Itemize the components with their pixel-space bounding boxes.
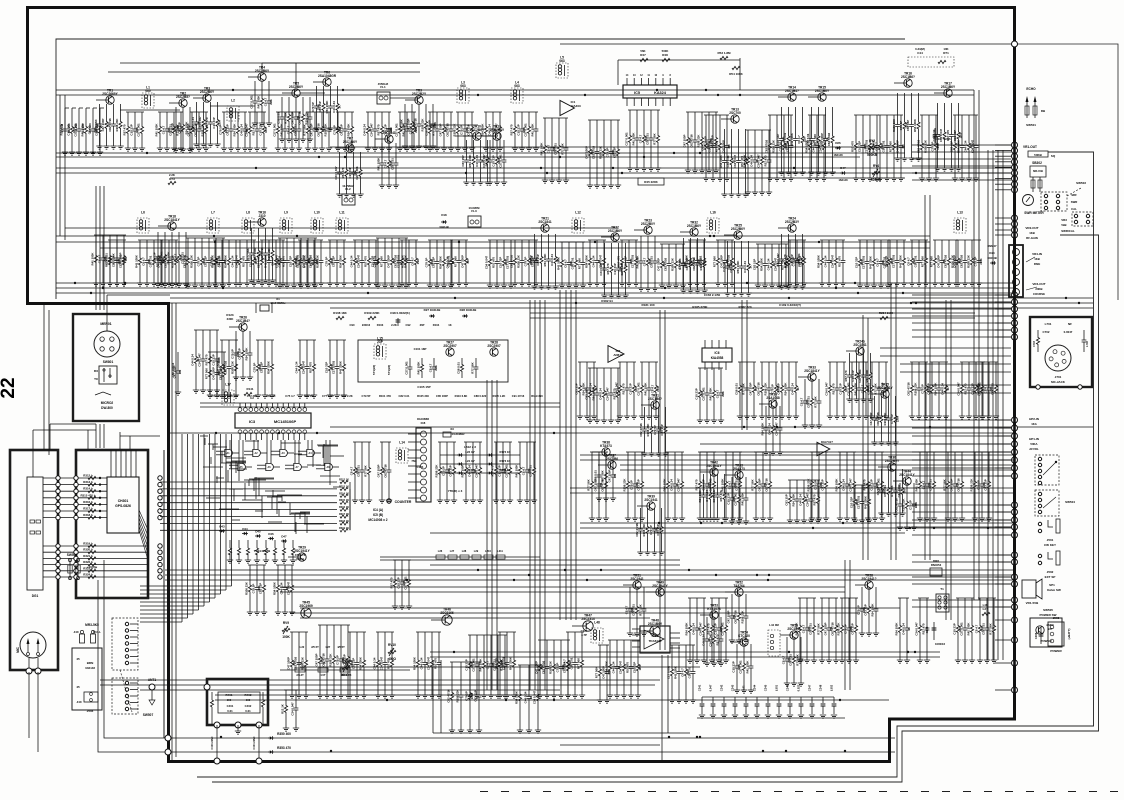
wires of TR37 stage (598, 464, 611, 466)
diode matrix right of IC8 (440, 454, 520, 456)
svg-text:C8 4.7: C8 4.7 (410, 257, 414, 266)
coil L14 cluster (396, 448, 408, 463)
svg-text:C27 0.001: C27 0.001 (876, 478, 880, 492)
wire rail y=523 (580, 522, 1014, 524)
svg-text:C83 15P: C83 15P (216, 256, 220, 267)
svg-text:SW501: SW501 (1026, 123, 1036, 127)
svg-text:C10 33P: C10 33P (348, 167, 352, 178)
svg-text:14.31MHz: 14.31MHz (451, 432, 465, 436)
band2 far right drops (933, 239, 958, 241)
resistor/capacitor drops of TR18 stage (156, 232, 161, 284)
svg-text:C402: C402 (245, 704, 252, 708)
svg-text:2SC1841Y: 2SC1841Y (164, 218, 180, 222)
left wires down to boxes (43, 305, 45, 450)
svg-text:C47 100P: C47 100P (823, 623, 827, 636)
svg-text:R77 56K: R77 56K (929, 255, 933, 267)
svg-text:C10 33P: C10 33P (632, 662, 636, 673)
transistor TR49 (656, 588, 664, 596)
wires of TR53 stage (700, 614, 713, 616)
svg-text:R77 56K: R77 56K (379, 255, 383, 267)
svg-text:C83 15P: C83 15P (536, 254, 540, 265)
svg-text:C8 4.7: C8 4.7 (428, 363, 432, 372)
bus wire x=925 (924, 195, 926, 560)
wires of TR9 stage (405, 99, 418, 101)
svg-text:C47 100P: C47 100P (593, 479, 597, 492)
svg-text:C34 0.047: C34 0.047 (244, 123, 248, 137)
svg-text:C248: C248 (819, 684, 823, 691)
svg-text:R54 100K: R54 100K (480, 123, 484, 137)
svg-text:C83 15P: C83 15P (466, 124, 470, 135)
svg-text:C79 5P: C79 5P (196, 257, 200, 267)
coil L7 (207, 218, 219, 233)
band5 left fill x=292 (290, 631, 308, 633)
svg-text:R106 23K: R106 23K (516, 254, 520, 268)
svg-text:R54 100K: R54 100K (791, 493, 795, 507)
op-amp IC1 BA403 (560, 100, 574, 115)
coil L11 (336, 218, 348, 233)
svg-text:C79 5P: C79 5P (332, 125, 336, 135)
inner nested border line 2 (right/bottom double frame) (212, 235, 1099, 782)
band5 left fill x=350 (348, 631, 366, 633)
svg-text:R106 23K: R106 23K (598, 145, 602, 159)
svg-text:L10: L10 (314, 211, 320, 215)
filter box bottom nodes (214, 722, 220, 728)
resistor network row (229, 540, 231, 548)
svg-text:C8 4.7: C8 4.7 (680, 668, 684, 677)
transistor TR29 (298, 553, 306, 561)
svg-text:D28 1N414B: D28 1N414B (460, 308, 477, 312)
svg-text:C10 33P: C10 33P (952, 623, 956, 634)
svg-text:C27 0.001: C27 0.001 (720, 622, 724, 636)
svg-text:L28: L28 (462, 549, 467, 553)
drops C84 area (194, 329, 219, 331)
svg-text:R41 100K: R41 100K (376, 157, 380, 171)
wires of TR50 stage (780, 634, 793, 636)
svg-text:2SC1B6Y: 2SC1B6Y (648, 622, 663, 626)
svg-text:220K: 220K (895, 416, 899, 422)
svg-text:R41 100K: R41 100K (868, 255, 872, 269)
svg-text:C10 33P: C10 33P (129, 124, 133, 135)
resistor/capacitor drops of TR44 stage (898, 483, 903, 527)
inner thin frame top-left (56, 39, 905, 299)
svg-text:C27 0.001: C27 0.001 (891, 254, 895, 268)
svg-text:C27 0.001: C27 0.001 (666, 665, 670, 679)
svg-text:C88 0.022: C88 0.022 (474, 394, 487, 398)
svg-text:C83 15P: C83 15P (448, 465, 452, 476)
svg-text:C10 33P: C10 33P (516, 124, 520, 135)
wires of TR35 stage (871, 393, 884, 395)
wire rail y=63 (120, 62, 420, 64)
svg-text:R41 100K: R41 100K (684, 254, 688, 268)
svg-text:R106 23K: R106 23K (548, 660, 552, 674)
svg-text:C27 0.001: C27 0.001 (504, 464, 508, 478)
power transistor TR47 (583, 621, 593, 631)
svg-text:TDA6130: TDA6130 (649, 639, 662, 643)
svg-text:C47 100P: C47 100P (290, 112, 294, 125)
wires of TR16 stage (894, 82, 907, 84)
power transistor 2SD363 box (1030, 618, 1062, 647)
svg-text:C401: C401 (227, 704, 234, 708)
svg-text:C8 4.7: C8 4.7 (270, 257, 274, 266)
svg-text:C27 0.001: C27 0.001 (272, 123, 276, 137)
svg-text:C8 4.7: C8 4.7 (286, 125, 290, 134)
svg-text:C44 0.34: C44 0.34 (766, 258, 770, 270)
svg-text:R57 470: R57 470 (616, 256, 620, 267)
transistor TR2 (179, 99, 187, 107)
svg-text:1000/16: 1000/16 (935, 642, 946, 646)
svg-text:5Y1(23): 5Y1(23) (372, 365, 376, 375)
svg-text:R95 560: R95 560 (304, 394, 315, 398)
svg-text:C8 4.7: C8 4.7 (263, 97, 267, 106)
svg-text:C56 0.01: C56 0.01 (148, 255, 152, 267)
coil L1 (142, 93, 154, 108)
wire rail y=680 (100, 679, 660, 681)
svg-text:R77 56K: R77 56K (652, 132, 656, 144)
svg-text:IC5: IC5 (634, 91, 640, 95)
svg-text:AFVOL: AFVOL (1029, 447, 1039, 451)
svg-text:R57 470: R57 470 (490, 465, 494, 476)
svg-text:C47 100P: C47 100P (386, 255, 390, 268)
svg-text:R106 23K: R106 23K (969, 478, 973, 492)
svg-text:2SC2B3Y: 2SC2B3Y (785, 220, 800, 224)
svg-text:R106 23K: R106 23K (763, 382, 767, 396)
band1 fill drops x=160 (158, 111, 183, 113)
band4 fill drops x=668 (666, 451, 684, 453)
band3 fill drops x=762 (760, 361, 778, 363)
svg-text:0.0047: 0.0047 (1064, 330, 1073, 334)
svg-text:45: 45 (76, 685, 80, 689)
wires of TR14 stage (778, 96, 791, 98)
svg-text:IC6: IC6 (715, 351, 720, 355)
svg-text:1N414B: 1N414B (439, 225, 449, 229)
wires from bus into schematic (995, 144, 1011, 146)
svg-text:C47 100P: C47 100P (897, 485, 901, 498)
transistor TR63 (735, 471, 743, 479)
svg-text:C47 100P: C47 100P (869, 413, 873, 426)
svg-text:R106 23K: R106 23K (806, 478, 810, 492)
logic wiring short segments (200, 435, 208, 437)
coil L8 (242, 218, 254, 233)
svg-text:C27 0.001: C27 0.001 (701, 387, 705, 401)
svg-text:C79 5P: C79 5P (523, 257, 527, 267)
transistor TR6 (323, 78, 331, 86)
band1 fill drops x=458 (456, 111, 474, 113)
svg-text:2SC2669Y: 2SC2669Y (102, 92, 118, 96)
svg-text:VR2-OUT: VR2-OUT (1025, 226, 1038, 230)
svg-text:R106 23K: R106 23K (771, 139, 775, 153)
bus wire x=492 (491, 380, 493, 690)
band1b fill drops x=856 (854, 114, 879, 116)
transistor TR24 (788, 224, 796, 232)
band2 fill drops x=890 (888, 239, 906, 241)
gate interconnect wires (225, 440, 227, 449)
svg-text:C83 15P: C83 15P (225, 124, 229, 135)
bus wire x=566 (565, 290, 567, 620)
transistor TR23 (644, 226, 652, 234)
svg-text:R106 23K: R106 23K (646, 423, 650, 437)
svg-text:MC145106P: MC145106P (274, 419, 297, 424)
DIN jack J701 (1045, 345, 1071, 371)
svg-text:C79 5P: C79 5P (464, 691, 468, 701)
svg-text:R106 23K: R106 23K (966, 254, 970, 268)
band5 left fill x=500 (498, 631, 516, 633)
bus wire x=993 (992, 150, 994, 660)
wires of TR58 stage (855, 584, 868, 586)
svg-text:2SC2B6Y: 2SC2B6Y (289, 85, 304, 89)
inner nested border line 1 (right/bottom double frame) (197, 152, 1094, 777)
svg-text:C44 0.34: C44 0.34 (362, 124, 366, 136)
svg-text:20KB: 20KB (1035, 287, 1042, 291)
svg-text:R182 94: R182 94 (601, 299, 613, 303)
transistor TR38 (602, 448, 610, 456)
bus wire x=576 (575, 290, 577, 620)
svg-text:C10 33P: C10 33P (628, 383, 632, 394)
svg-text:C44 0.34: C44 0.34 (588, 383, 592, 395)
resistor/capacitor drops of TR9 stage (403, 104, 408, 146)
svg-text:C34 0.047: C34 0.047 (773, 257, 777, 271)
svg-text:C91 47/16: C91 47/16 (512, 394, 525, 398)
svg-text:C34 0.047: C34 0.047 (914, 622, 918, 636)
transistor TR39 (647, 502, 655, 510)
svg-text:C47 100P: C47 100P (301, 255, 305, 268)
svg-text:C44 0.34: C44 0.34 (743, 261, 747, 273)
svg-text:R54 100K: R54 100K (460, 464, 464, 478)
svg-text:C10 33P: C10 33P (111, 256, 115, 267)
right node stub rails (912, 144, 1011, 146)
svg-text:L501: L501 (775, 684, 779, 691)
svg-text:C62 47/16: C62 47/16 (959, 254, 963, 268)
wires of TR2 stage (169, 102, 182, 104)
bus wire x=974 (973, 90, 975, 600)
svg-text:2.2K: 2.2K (656, 386, 660, 392)
wire rail y=652 (430, 651, 940, 653)
svg-text:C62 47/16: C62 47/16 (956, 478, 960, 492)
svg-text:R106 23K: R106 23K (642, 523, 646, 537)
svg-text:C44 0.34: C44 0.34 (523, 691, 527, 703)
band1b fill drops x=770 (768, 114, 793, 116)
svg-text:C83 15P: C83 15P (574, 383, 578, 394)
svg-text:C27 0.001: C27 0.001 (733, 492, 737, 506)
svg-text:L12: L12 (575, 211, 581, 215)
svg-text:R41 100K: R41 100K (556, 256, 560, 270)
svg-text:1N4148: 1N4148 (833, 153, 843, 157)
svg-text:R106 23K: R106 23K (434, 464, 438, 478)
band5 left fill x=568 (566, 631, 584, 633)
wire rail y=283 (56, 282, 1014, 284)
stage link wires band1 (120, 109, 180, 111)
wires of TR5 stage (282, 92, 295, 94)
svg-text:R313 b: R313 b (83, 480, 93, 484)
svg-text:063: 063 (514, 84, 520, 88)
svg-text:L16: L16 (710, 211, 716, 215)
SW504 dashed switch lower (1035, 490, 1059, 516)
svg-text:R57 470: R57 470 (946, 130, 950, 141)
wire rail y=738 (110, 737, 895, 739)
transformer T1 (936, 594, 949, 612)
after TR48 drops (670, 644, 695, 646)
svg-text:C83 15P: C83 15P (473, 690, 477, 701)
svg-text:C62 47/16: C62 47/16 (639, 423, 643, 437)
svg-text:C158 2.1/50: C158 2.1/50 (704, 293, 721, 297)
svg-text:R106 23K: R106 23K (244, 581, 248, 595)
svg-text:C34 0.047: C34 0.047 (484, 255, 488, 269)
svg-text:R96 47: R96 47 (987, 244, 996, 248)
transistor TR24b (856, 347, 864, 355)
drops under TR21 (560, 241, 585, 243)
svg-text:D45: D45 (255, 530, 261, 534)
bus wire x=535 (534, 300, 536, 690)
coil L5 (556, 63, 568, 78)
svg-text:1N4148: 1N4148 (838, 178, 848, 182)
svg-text:R41 100K: R41 100K (740, 492, 744, 506)
NAND gates row 1 (225, 449, 233, 456)
svg-text:C10 33P: C10 33P (383, 124, 387, 135)
svg-text:0.022: 0.022 (797, 684, 801, 691)
svg-text:C62 47/16: C62 47/16 (830, 622, 834, 636)
svg-text:36P: 36P (420, 323, 425, 327)
band5 fill drops x=920 (918, 597, 929, 599)
svg-text:C44: C44 (917, 51, 923, 55)
band2 fill drops x=515 (513, 239, 538, 241)
svg-text:C27 0.001: C27 0.001 (471, 658, 475, 672)
band4 fill drops x=975 (973, 451, 991, 453)
wire rail y=178 (170, 177, 905, 179)
svg-text:R41 100K: R41 100K (478, 658, 482, 672)
pad pair 1 in MIC strip (30, 520, 35, 523)
svg-text:C83 15P: C83 15P (636, 479, 640, 490)
svg-text:R71: R71 (943, 51, 949, 55)
svg-text:C8 4.7: C8 4.7 (408, 125, 412, 134)
svg-text:C10 33P: C10 33P (212, 117, 216, 128)
svg-text:SW504: SW504 (67, 553, 78, 557)
svg-text:R319 b: R319 b (83, 542, 93, 546)
svg-text:R57 470: R57 470 (491, 257, 495, 268)
svg-text:2SC2907: 2SC2907 (443, 344, 457, 348)
resistor/capacitor drops of TR10 stage (464, 140, 469, 182)
svg-text:C8 4.7: C8 4.7 (715, 389, 719, 398)
resistor/capacitor drops of TR32 stage (681, 238, 686, 290)
svg-text:BRN: BRN (87, 661, 94, 665)
svg-text:10.240MHz: 10.240MHz (270, 301, 286, 305)
svg-text:C404 22NF: C404 22NF (252, 736, 256, 750)
svg-text:C62 47/16: C62 47/16 (321, 653, 325, 667)
svg-text:C62 47/16: C62 47/16 (689, 134, 693, 148)
svg-text:C83 15P: C83 15P (784, 494, 788, 505)
svg-text:C44 0.34: C44 0.34 (901, 623, 905, 635)
wires of TR23 stage (634, 229, 647, 231)
svg-text:C77 220P: C77 220P (322, 394, 334, 398)
svg-text:DG1: DG1 (32, 594, 39, 598)
svg-text:R41 100K: R41 100K (416, 361, 420, 375)
svg-text:L7: L7 (211, 211, 215, 215)
svg-text:330: 330 (178, 369, 182, 374)
svg-text:C34 0.047: C34 0.047 (818, 139, 822, 153)
band1 collector rail wires (262, 62, 420, 64)
R354 drops (284, 689, 298, 691)
svg-text:C47 100P: C47 100P (656, 258, 660, 271)
svg-text:C62 47/16: C62 47/16 (108, 118, 112, 132)
svg-text:L13: L13 (957, 211, 963, 215)
svg-text:L22: L22 (300, 645, 305, 649)
svg-text:C47 100P: C47 100P (949, 479, 953, 492)
svg-text:C8 4.7: C8 4.7 (691, 257, 695, 266)
svg-text:C27 0.001: C27 0.001 (404, 361, 408, 375)
svg-text:C79 5P: C79 5P (813, 480, 817, 490)
svg-text:C56 0.01: C56 0.01 (277, 255, 281, 267)
svg-text:C27 0.001: C27 0.001 (498, 154, 502, 168)
svg-text:R77 56K: R77 56K (888, 140, 892, 152)
svg-text:063: 063 (460, 84, 466, 88)
resistor/capacitor drops of TR58 stage (860, 587, 865, 633)
svg-text:R104: R104 (433, 323, 440, 327)
input drops at left edge band1 (63, 108, 68, 152)
svg-text:C83 15P: C83 15P (339, 124, 343, 135)
svg-text:C72 33P: C72 33P (247, 394, 258, 398)
svg-text:R77 56K: R77 56K (795, 653, 799, 665)
ground under filter box (237, 725, 239, 731)
svg-text:2SC1B6?: 2SC1B6? (901, 75, 915, 79)
svg-text:R54 100K: R54 100K (913, 118, 917, 132)
svg-text:C79 5P: C79 5P (677, 260, 681, 270)
svg-text:2/4.3T: 2/4.3T (296, 673, 304, 677)
IC3 MC145106P PLL (235, 413, 311, 428)
svg-text:2SC2B0Y: 2SC2B0Y (641, 222, 656, 226)
svg-text:C27 0.001: C27 0.001 (861, 255, 865, 269)
svg-text:R54 100K: R54 100K (338, 254, 342, 268)
svg-text:R41 100K: R41 100K (863, 495, 867, 509)
svg-text:2SC2B6Y: 2SC2B6Y (200, 90, 215, 94)
svg-text:C124: C124 (417, 465, 424, 469)
svg-text:C44 0.34: C44 0.34 (419, 657, 423, 669)
IC6 KIA4558 box (702, 348, 732, 362)
svg-text:1K: 1K (594, 387, 598, 390)
svg-text:0.01: 0.01 (227, 709, 233, 713)
svg-text:C8 4.7: C8 4.7 (349, 466, 353, 475)
svg-text:330: 330 (124, 256, 128, 261)
svg-text:R57 470: R57 470 (812, 494, 816, 505)
svg-text:1200: 1200 (638, 664, 642, 670)
svg-text:C34 0.047: C34 0.047 (605, 387, 609, 401)
svg-text:C27 0.001: C27 0.001 (846, 382, 850, 396)
band4 fill drops x=700 (698, 451, 716, 453)
svg-text:C245: C245 (764, 684, 768, 691)
resistor/capacitor drops of TR3 stage (194, 102, 199, 144)
DIN connector in MER01 (94, 331, 120, 357)
svg-text:C44 0.34: C44 0.34 (591, 255, 595, 267)
svg-text:C79 5P: C79 5P (920, 384, 924, 394)
svg-text:R88 10K: R88 10K (228, 394, 239, 398)
svg-text:R41 100K: R41 100K (154, 123, 158, 137)
svg-text:2SC1B4?: 2SC1B4? (236, 319, 250, 323)
L48 drops (598, 644, 609, 646)
resistor/capacitor drops of TR8 stage (380, 143, 385, 185)
svg-text:C8 4.7: C8 4.7 (700, 142, 704, 151)
wires of TR36 stage (878, 466, 891, 468)
band5 fill drops x=958 (956, 597, 974, 599)
svg-text:R54 100K: R54 100K (325, 100, 329, 114)
resistor/capacitor drops of TR38 stage (597, 454, 602, 498)
svg-text:KA324: KA324 (654, 91, 667, 95)
svg-text:VR1-5VB: VR1-5VB (1026, 601, 1040, 605)
band5 fill drops x=980 (978, 597, 996, 599)
svg-text:45: 45 (76, 657, 80, 661)
svg-text:C79 5P: C79 5P (770, 384, 774, 394)
svg-text:2SA1048GR: 2SA1048GR (318, 74, 337, 78)
svg-text:R77 56K: R77 56K (741, 382, 745, 394)
drops under L9-L11 (278, 237, 317, 239)
svg-text:C34 0.047: C34 0.047 (824, 382, 828, 396)
wires of TR32 stage (680, 231, 693, 233)
